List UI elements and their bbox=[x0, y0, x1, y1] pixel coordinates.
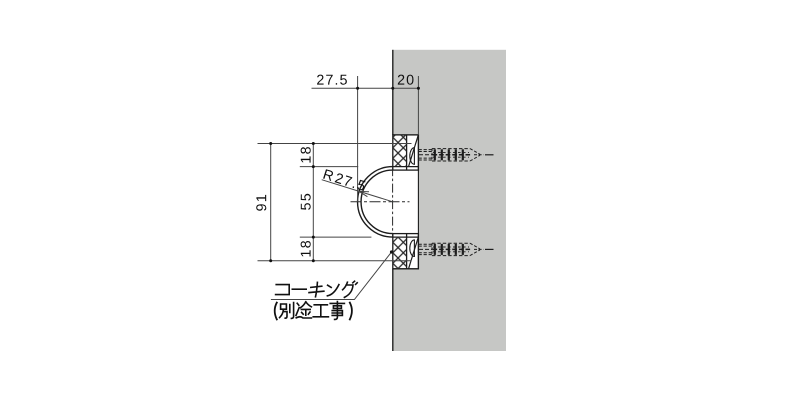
extension line bar top bbox=[300, 166, 358, 168]
dimension text 55 (rotated) bbox=[301, 194, 311, 210]
horizontal center line of bend bbox=[351, 201, 410, 203]
U-bar inner bend arc bbox=[361, 170, 393, 234]
bottom anchor screw (hidden, dashed) bbox=[419, 243, 494, 255]
wall recess (20 deep) bbox=[393, 135, 419, 269]
extension line bar bottom bbox=[300, 236, 372, 238]
bottom mount plate rect bbox=[393, 234, 419, 269]
top screw dome head bbox=[410, 148, 415, 165]
dimension text 20 bbox=[398, 75, 414, 85]
bottom caulking divider bbox=[406, 234, 408, 269]
extension line top (through caulking) bbox=[258, 143, 412, 145]
R27.5 text (rotated along leader) bbox=[323, 169, 333, 181]
top anchor screw (hidden, dashed) bbox=[419, 149, 494, 161]
top flange cone line bbox=[409, 135, 419, 166]
extension line at recess back bbox=[417, 76, 419, 135]
label text （別途工事） (separate work) bbox=[275, 302, 352, 320]
bottom bar edge line bbox=[393, 236, 419, 238]
recess bottom edge bbox=[393, 268, 419, 270]
R27.5 arrowhead at arc bbox=[359, 191, 369, 196]
18-55-18 dimension chain line bbox=[312, 144, 314, 261]
dimension points left bbox=[269, 142, 272, 145]
wall (concrete, grey) bbox=[393, 50, 506, 351]
dimension text 18 top (rotated) bbox=[301, 147, 311, 163]
vertical center line (wall face plane) bbox=[392, 167, 394, 237]
recess top edge bbox=[393, 134, 419, 136]
label text コーキング (caulking) bbox=[276, 281, 358, 297]
wall face line upper bbox=[392, 50, 394, 135]
R27.5 radius dimension line bbox=[322, 180, 393, 202]
dimension points bbox=[356, 87, 359, 90]
dimension text 18 bottom (rotated) bbox=[301, 241, 311, 257]
dimension text 91 (rotated) bbox=[256, 195, 266, 211]
extension line bottom (through caulking) bbox=[258, 260, 412, 262]
dimension text 27.5 bbox=[317, 75, 347, 85]
top bar edge line bbox=[393, 166, 419, 168]
top dimension line bbox=[312, 87, 420, 89]
caulking note underline and leader bbox=[271, 252, 392, 300]
bottom flange cone line bbox=[409, 238, 419, 269]
extension line at arc left bbox=[357, 76, 359, 202]
bottom caulking cross-hatch bbox=[393, 238, 406, 269]
91 dimension line bbox=[270, 144, 272, 261]
wall face line lower bbox=[392, 269, 394, 351]
recess back edge bbox=[417, 135, 419, 269]
top mount plate rect bbox=[393, 135, 419, 170]
U-bar outer bend arc R27.5 bbox=[358, 167, 393, 238]
top caulking divider bbox=[406, 135, 408, 170]
bottom screw dome head bbox=[410, 240, 415, 257]
leader end dot bbox=[390, 250, 393, 253]
top caulking cross-hatch bbox=[393, 135, 406, 166]
